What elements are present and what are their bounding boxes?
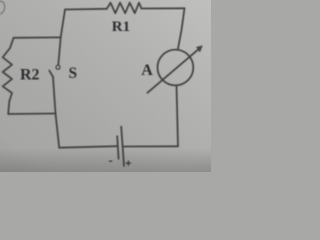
wire left branch upper (switch up to top-left corner) (58, 10, 65, 65)
paper background (0, 0, 211, 172)
wire R2 bottom connector (to junction on switch branch) (8, 113, 55, 116)
wire R2 lower lead (8, 101, 9, 114)
resistor R2 (3, 48, 12, 101)
resistor R1 (107, 3, 142, 14)
ammeter needle / diagonal arrow (147, 47, 200, 92)
wire right branch lower (ammeter to bottom-right corner) (177, 85, 179, 146)
wire bottom, right segment (bottom-right corner to battery +) (123, 145, 178, 147)
svg-text:S: S (69, 65, 78, 82)
label battery minus (110, 160, 112, 162)
svg-text:R1: R1 (112, 19, 130, 35)
switch S contact circle (56, 65, 60, 69)
switch S blade (open) (49, 71, 53, 77)
svg-text:R2: R2 (20, 67, 40, 84)
ammeter U1 (A) body (158, 50, 194, 86)
wire bottom, left segment (battery - to bottom-left corner) (59, 146, 117, 148)
wire top, left segment (top-left corner to R1) (65, 8, 107, 11)
wire left branch lower (bottom-left corner up to switch blade) (53, 77, 59, 148)
battery BT1 positive plate (long) (121, 127, 124, 166)
stray pen mark top-left corner (0, 1, 5, 14)
label battery plus (126, 162, 130, 164)
battery BT1 negative plate (short) (117, 136, 118, 159)
wire R2 upper lead (10, 38, 14, 48)
wire top, right segment (R1 to top-right corner) (142, 7, 185, 9)
svg-text:A: A (141, 62, 153, 79)
wire R2 top connector (14, 36, 61, 38)
wire right branch upper (top-right corner down to ammeter) (178, 8, 185, 50)
